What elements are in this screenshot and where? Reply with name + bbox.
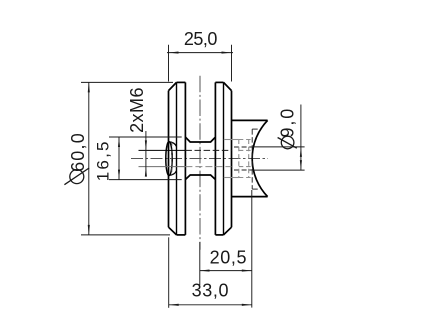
dimension 25,0 (167, 45, 233, 82)
hidden vertical edge in hole (171, 142, 173, 175)
countersink edge arc bottom (169, 171, 176, 176)
M6 hole lower edge line (139, 166, 186, 168)
diameter symbol for 60,0 (64, 168, 89, 185)
dimension diameter 60,0 (81, 82, 173, 235)
saddle piece bottom edge (232, 196, 268, 198)
centerline vertical axis (199, 76, 201, 250)
saddle concave arc (252, 120, 267, 196)
dimension 33,0 (169, 237, 252, 307)
svg-text:25,0: 25,0 (184, 29, 218, 49)
chamfer edge line left flange (176, 82, 178, 235)
svg-text:20,5: 20,5 (210, 247, 247, 267)
svg-text:60,0: 60,0 (68, 132, 88, 172)
dimension diameter 9,0 (253, 105, 304, 171)
chamfer edge line right flange (223, 82, 225, 235)
dimension 20,5 (200, 190, 252, 308)
svg-text:2xM6: 2xM6 (127, 87, 147, 133)
diameter symbol for 9,0 (278, 136, 297, 149)
dimension 16,5 (109, 137, 182, 180)
core web between flanges (185, 137, 215, 179)
body outline right flange (215, 82, 231, 235)
svg-text:9,0: 9,0 (278, 107, 298, 138)
saddle piece top edge (232, 119, 268, 121)
hole entry ellipse on left flange (166, 142, 172, 176)
countersink edge arc top (169, 142, 176, 147)
svg-text:33,0: 33,0 (192, 281, 229, 301)
body outline left flange (169, 82, 186, 235)
M6 hole upper edge line (139, 149, 186, 151)
hidden 9mm hole lines in saddle (234, 146, 252, 148)
leader 2xM6 (145, 131, 147, 175)
centerline horizontal axis (131, 158, 268, 160)
hidden gray fitting lines behind flange (224, 140, 253, 178)
hidden bore edge in saddle (252, 129, 260, 189)
svg-text:16,5: 16,5 (94, 139, 113, 181)
